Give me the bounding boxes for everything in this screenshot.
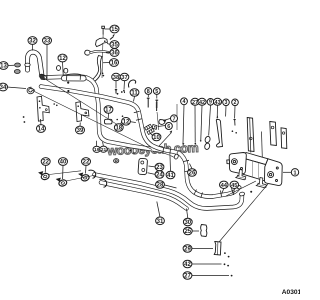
callout 15	[110, 25, 119, 33]
svg-text:15: 15	[111, 27, 118, 33]
svg-text:22: 22	[42, 160, 49, 166]
bolt part 5	[155, 100, 158, 112]
upper pipe assembly: front pipe A (hump, drop at x~98)	[44, 76, 176, 156]
bottom pipe D	[101, 183, 187, 209]
svg-text:41: 41	[167, 173, 174, 179]
stay part 43/3 target	[216, 119, 222, 147]
svg-text:8: 8	[147, 89, 150, 95]
elbow fitting at J-pipe joint	[40, 75, 45, 80]
svg-text:3: 3	[225, 100, 228, 106]
svg-text:36: 36	[111, 51, 118, 57]
clamp 22a	[39, 172, 50, 181]
callout 10	[152, 133, 161, 141]
callout 23	[155, 163, 164, 171]
callout 29	[183, 245, 192, 253]
callout 6	[165, 123, 172, 131]
bracket part 6 target	[152, 125, 157, 130]
thin diagonal lines	[219, 184, 268, 242]
callout 44	[220, 181, 229, 189]
tall bracket A	[247, 118, 254, 152]
callout 36	[110, 49, 119, 57]
callout 28	[156, 181, 165, 189]
hook rod part 36	[85, 50, 91, 55]
washers part 13	[15, 63, 21, 67]
callout 42	[183, 260, 192, 268]
arrowhead 4	[182, 143, 184, 146]
callout 37	[120, 73, 129, 81]
callout 8	[145, 88, 152, 95]
pipe A end cap	[174, 154, 179, 160]
callout 22	[82, 158, 91, 166]
callout 43	[213, 98, 221, 106]
tall bracket C	[281, 128, 287, 149]
svg-text:27: 27	[192, 100, 198, 106]
callout 26	[188, 169, 197, 177]
clamp 22b	[79, 173, 90, 182]
callout 24	[155, 171, 164, 179]
callout 2	[232, 99, 239, 106]
hose end fittings left	[89, 170, 96, 178]
callout 7	[171, 115, 178, 123]
callout 27	[183, 272, 192, 280]
sleeve marks pipe B drop	[134, 111, 171, 155]
callout 25	[183, 227, 192, 235]
svg-text:12: 12	[123, 120, 130, 126]
bolt below 38	[115, 89, 117, 94]
svg-text:44: 44	[221, 183, 228, 189]
callout 4	[181, 98, 188, 105]
bolt part 8	[147, 98, 150, 108]
svg-text:13: 13	[0, 64, 7, 70]
callout 14	[37, 125, 46, 133]
callout 33	[43, 37, 52, 45]
pipe 32 (J-bend water pipe)	[28, 52, 42, 75]
svg-text:35: 35	[111, 43, 118, 49]
svg-text:11: 11	[131, 91, 138, 97]
rings part 9 target	[204, 136, 211, 150]
hose hook near 11	[128, 80, 135, 88]
callout 9	[207, 99, 214, 106]
svg-text:21: 21	[101, 147, 107, 153]
bracket part 35	[96, 38, 108, 47]
arrowhead 43	[217, 115, 219, 118]
svg-text:39: 39	[77, 128, 84, 134]
grommet part 25	[201, 225, 207, 237]
callout 3	[223, 99, 230, 106]
svg-text:2: 2	[234, 100, 237, 106]
svg-text:14: 14	[38, 127, 45, 133]
tall bracket B	[270, 122, 277, 146]
svg-text:40: 40	[60, 160, 67, 166]
callout 39	[76, 126, 85, 134]
arrowhead 7	[163, 120, 166, 122]
hose pieces part 10	[145, 124, 155, 134]
screw below 37	[123, 90, 126, 93]
callout 27	[191, 98, 199, 106]
callout 12	[122, 118, 131, 126]
hump thick sleeve on pipe A	[64, 75, 84, 81]
svg-text:30: 30	[184, 220, 191, 226]
svg-text:26: 26	[189, 171, 196, 177]
bracket part 29	[214, 242, 221, 256]
bracket part 39	[76, 102, 89, 122]
clamp part 7 target	[159, 120, 165, 125]
callout 40	[59, 158, 68, 166]
ring grommet	[114, 159, 119, 163]
svg-text:24: 24	[156, 173, 163, 179]
callout 17	[104, 106, 113, 114]
svg-text:34: 34	[0, 85, 7, 91]
callout 11	[130, 89, 139, 97]
callout 16	[110, 59, 119, 67]
callout 42	[198, 98, 206, 106]
svg-text:45: 45	[231, 183, 238, 189]
arrow line mid	[159, 133, 171, 146]
callout 19	[93, 146, 100, 153]
callout 32	[28, 37, 37, 45]
leader lines	[7, 29, 291, 276]
svg-text:27: 27	[184, 274, 191, 280]
svg-text:9: 9	[209, 100, 212, 106]
bracket part 23/24	[138, 158, 148, 175]
callout 21	[100, 146, 107, 153]
callout 30	[183, 218, 192, 226]
svg-text:38: 38	[113, 75, 120, 81]
callout 34	[0, 83, 8, 91]
callout 1	[291, 169, 298, 177]
svg-text:17: 17	[105, 108, 112, 114]
callout 18	[114, 124, 123, 132]
svg-text:12: 12	[59, 56, 66, 62]
callout 35	[110, 41, 119, 49]
svg-text:25: 25	[184, 229, 191, 235]
svg-text:43: 43	[214, 100, 220, 106]
heater foot left	[236, 170, 246, 180]
svg-text:5: 5	[155, 89, 158, 95]
heater unit part 1	[227, 153, 282, 186]
clamp 40	[57, 178, 68, 187]
clamp part 34	[27, 87, 34, 94]
bolt part 2 target	[233, 119, 235, 126]
callout 45	[230, 181, 239, 189]
callout 38	[112, 73, 121, 81]
upper pipe assembly: rear pipe B (drop at x~140)	[41, 87, 179, 154]
hump seams on pipe A	[67, 74, 81, 80]
svg-text:33: 33	[44, 39, 51, 45]
svg-text:4: 4	[183, 99, 186, 105]
svg-text:37: 37	[121, 75, 127, 81]
svg-text:31: 31	[157, 219, 164, 225]
svg-text:18: 18	[115, 126, 122, 132]
heater foot right	[256, 178, 266, 188]
bolt part 15	[102, 26, 105, 34]
svg-text:A0301: A0301	[282, 289, 300, 296]
svg-text:16: 16	[111, 61, 118, 67]
callout 12	[58, 54, 67, 62]
bracket part 14	[37, 96, 49, 121]
hose part 26/30 run	[179, 153, 239, 197]
svg-text:6: 6	[167, 124, 170, 130]
svg-text:29: 29	[184, 247, 191, 253]
svg-text:42: 42	[184, 262, 191, 268]
callout 41	[166, 171, 175, 179]
svg-text:22: 22	[83, 160, 90, 166]
svg-text:42: 42	[199, 100, 205, 106]
bottom pipe C (31)	[95, 175, 243, 209]
clamp part 17	[105, 119, 113, 124]
small screw dots	[23, 73, 253, 277]
svg-text:32: 32	[29, 39, 36, 45]
washers part 12	[57, 66, 61, 71]
svg-text:7: 7	[172, 116, 175, 122]
clamp ticks hoses	[184, 160, 234, 198]
callout 13	[0, 62, 8, 70]
junction blobs under hump	[67, 82, 69, 84]
callout 22	[41, 158, 50, 166]
svg-text:19: 19	[94, 147, 100, 153]
callout 31	[156, 217, 165, 225]
long cross leaders	[46, 80, 117, 125]
svg-text:10: 10	[153, 135, 160, 141]
bracket rear edges	[250, 118, 263, 158]
callout 5	[153, 88, 160, 95]
bracket part 16	[93, 56, 103, 82]
svg-text:28: 28	[157, 183, 164, 189]
